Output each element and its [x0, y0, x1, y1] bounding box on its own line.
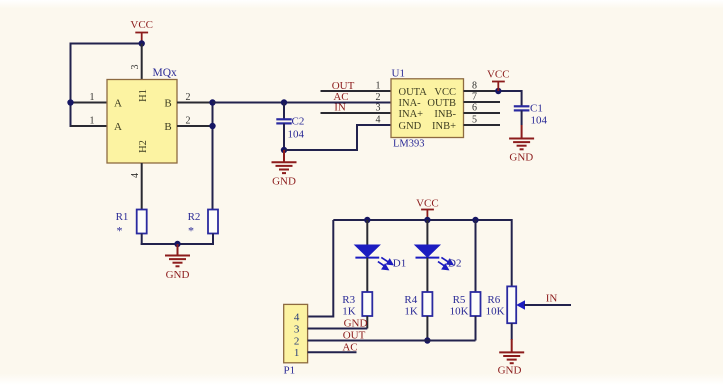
svg-text:1: 1 [90, 92, 95, 103]
wire pin 4 (H2) down [141, 163, 143, 210]
svg-text:IN: IN [546, 293, 558, 305]
ground symbol (R6) [499, 339, 524, 363]
svg-text:A: A [114, 121, 122, 133]
svg-text:IN: IN [334, 101, 346, 113]
svg-text:8: 8 [472, 80, 477, 91]
capacitor C2 [276, 103, 291, 151]
node junction B2 [209, 123, 215, 129]
svg-text:3: 3 [130, 65, 141, 70]
wire pin A2 [71, 125, 108, 127]
wire U1 pin 1 OUT stub [321, 90, 392, 92]
wire P1 pin 2 OUT net [308, 340, 476, 342]
svg-text:5: 5 [472, 114, 477, 125]
svg-text:C1: C1 [530, 102, 543, 114]
power symbol VCC (U1) [492, 82, 505, 92]
wire ground rail under R1 R2 [141, 243, 214, 245]
svg-text:INA+: INA+ [399, 109, 424, 120]
ground symbol (C1) [509, 125, 534, 149]
wire pin B2 [177, 125, 213, 127]
ground symbol (sensor divider) [165, 244, 190, 266]
svg-text:104: 104 [288, 129, 305, 141]
svg-text:4: 4 [376, 114, 381, 125]
svg-text:OUTB: OUTB [427, 98, 456, 109]
svg-text:VCC: VCC [434, 87, 456, 98]
svg-text:4: 4 [294, 311, 300, 323]
resistor R4 [422, 292, 432, 316]
wire pin B1 [177, 102, 213, 104]
svg-text:U1: U1 [392, 68, 405, 80]
wire R6 to ground [511, 323, 513, 340]
node junction B1 [209, 99, 215, 105]
wire B bus down to R2 [212, 103, 214, 210]
svg-text:B: B [164, 97, 171, 109]
svg-text:2: 2 [294, 335, 300, 347]
resistor R2 [208, 210, 218, 234]
svg-text:2: 2 [186, 92, 191, 103]
node junction R4 / OUT net [424, 337, 430, 343]
svg-text:2: 2 [186, 115, 191, 126]
wire rail down to R5 [475, 220, 477, 292]
resistor R5 [471, 292, 481, 316]
svg-text:OUTA: OUTA [399, 87, 428, 98]
svg-text:1: 1 [294, 347, 300, 359]
svg-text:INB+: INB+ [432, 121, 456, 132]
wire pin A1 [71, 102, 108, 104]
svg-text:VCC: VCC [416, 197, 439, 209]
svg-text:R5: R5 [453, 294, 466, 306]
svg-text:*: * [117, 224, 123, 238]
wire U1 pin 7 stub [464, 101, 501, 103]
svg-text:R6: R6 [487, 294, 500, 306]
comparator U1 body [391, 79, 464, 138]
power symbol VCC (sensor supply) [135, 33, 148, 44]
svg-text:GND: GND [166, 269, 190, 281]
svg-text:10K: 10K [450, 306, 469, 318]
svg-text:D2: D2 [448, 258, 461, 270]
light arrows D1 [378, 257, 393, 269]
svg-text:GND: GND [509, 151, 533, 163]
svg-text:INB-: INB- [434, 109, 456, 120]
svg-text:1: 1 [90, 115, 95, 126]
node junction rail at R5 [472, 217, 478, 223]
svg-text:OUT: OUT [343, 330, 366, 342]
node junction rail at VCC / D2 [424, 217, 430, 223]
svg-text:*: * [188, 224, 194, 238]
svg-text:R4: R4 [404, 294, 417, 306]
wire VCC rail [333, 219, 511, 221]
svg-text:B: B [164, 121, 171, 133]
capacitor C1 [514, 106, 530, 125]
svg-text:6: 6 [472, 102, 477, 113]
svg-text:1K: 1K [342, 306, 356, 318]
svg-text:VCC: VCC [487, 69, 510, 81]
potentiometer R6 [507, 286, 516, 323]
svg-text:R3: R3 [342, 294, 355, 306]
LED D2 [415, 220, 440, 292]
node junction ground rail [174, 241, 180, 247]
svg-text:P1: P1 [284, 365, 296, 377]
wire VCC to A-pin bus [71, 43, 142, 45]
svg-text:MQx: MQx [153, 67, 178, 79]
svg-text:4: 4 [130, 173, 141, 178]
node junction A1 [67, 99, 73, 105]
wire P1 pin 1 AC stub [308, 351, 357, 353]
svg-text:7: 7 [472, 91, 477, 102]
node junction C2 bottom [281, 147, 287, 153]
svg-text:INA-: INA- [399, 98, 422, 109]
svg-text:104: 104 [531, 115, 548, 127]
light arrows D2 [438, 257, 453, 269]
power symbol VCC (LED rail) [421, 210, 434, 221]
node junction C2 top [281, 99, 287, 105]
sensor MQx body [107, 80, 177, 164]
connector P1 body [284, 304, 308, 362]
wire R5 to OUT net [475, 316, 477, 341]
svg-text:GND: GND [399, 121, 422, 132]
wire R1 to ground rail [141, 234, 143, 246]
LED D1 [355, 220, 380, 292]
svg-text:A: A [114, 97, 122, 109]
svg-text:AC: AC [342, 341, 357, 353]
svg-text:C2: C2 [292, 116, 305, 128]
svg-text:10K: 10K [486, 306, 505, 318]
resistor R1 [137, 210, 147, 234]
wire R4 to OUT net [426, 316, 428, 341]
wire P1 pin 3 GND net [308, 328, 368, 330]
svg-text:OUT: OUT [332, 80, 355, 92]
wire A-pin bus vertical [70, 43, 72, 128]
wire U1 pin 5 stub [464, 124, 501, 126]
svg-text:LM393: LM393 [393, 139, 425, 150]
svg-text:H2: H2 [138, 140, 149, 153]
wire U1 pin 6 stub [464, 112, 501, 114]
wire rail down to P1 pin 4 [308, 220, 334, 317]
svg-text:GND: GND [498, 365, 522, 377]
wire U1 pin 3 IN stub [321, 112, 392, 114]
wire R3 to GND net [366, 316, 368, 329]
svg-text:GND: GND [344, 318, 368, 330]
svg-text:3: 3 [376, 102, 381, 113]
svg-text:1K: 1K [404, 306, 418, 318]
node junction VCC at pin 8 [495, 88, 501, 94]
wire U1 pin 8 to VCC and C1 [464, 90, 499, 92]
svg-text:2: 2 [376, 92, 381, 103]
wire rail down to R6 [511, 219, 513, 286]
wire U1 GND pin to C2 bottom [284, 125, 391, 150]
svg-text:GND: GND [272, 176, 296, 188]
svg-text:1: 1 [376, 80, 381, 91]
wire net AC: B bus to U1 pin 2 [213, 102, 392, 104]
svg-text:3: 3 [294, 323, 300, 335]
svg-text:R1: R1 [116, 211, 129, 223]
node junction rail at D1 [364, 217, 370, 223]
svg-text:D1: D1 [393, 258, 406, 270]
wiper arrow R6 [516, 300, 571, 309]
ground symbol (C2) [272, 150, 297, 173]
resistor R3 [362, 292, 372, 316]
svg-text:VCC: VCC [130, 19, 153, 31]
wire pin 3 (H1) to VCC [141, 44, 143, 80]
node junction VCC stem [139, 40, 145, 46]
svg-text:H1: H1 [138, 89, 149, 102]
wire R2 to ground rail [212, 234, 214, 246]
svg-text:R2: R2 [188, 211, 201, 223]
